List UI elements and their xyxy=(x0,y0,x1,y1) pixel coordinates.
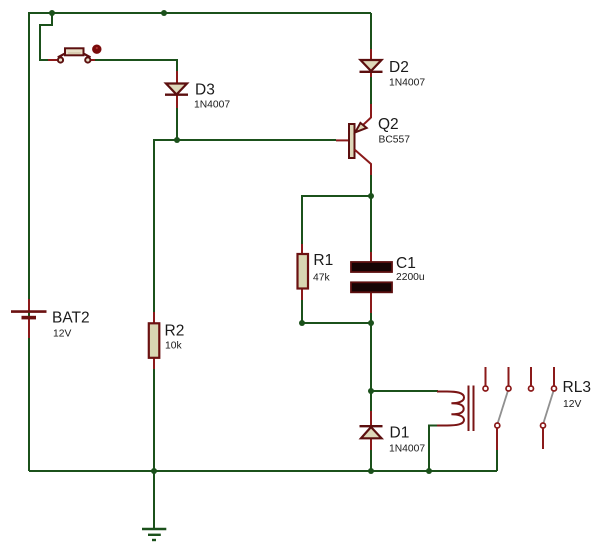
svg-text:12V: 12V xyxy=(563,399,581,410)
wire button branch xyxy=(40,13,52,60)
wire node B to R2 xyxy=(154,140,177,313)
junction node C (collector) xyxy=(368,193,374,199)
svg-text:R2: R2 xyxy=(165,323,185,340)
wire D3 to node B xyxy=(176,95,178,140)
svg-text:BC557: BC557 xyxy=(379,134,411,145)
wire button to D3 xyxy=(94,60,177,72)
resistor R1 xyxy=(298,244,309,300)
capacitor C1 xyxy=(351,252,392,313)
wire base of Q2 xyxy=(177,139,336,141)
relay RL3 core bars xyxy=(469,386,474,432)
wire R1 bottom xyxy=(301,299,303,323)
wire top rail xyxy=(29,12,371,14)
diode D1 xyxy=(360,411,383,450)
svg-text:10k: 10k xyxy=(165,341,182,352)
wire ground stem xyxy=(153,471,155,529)
wire node C to R1 top xyxy=(302,196,371,245)
svg-text:12V: 12V xyxy=(53,329,71,340)
wire D2 drop xyxy=(370,13,372,50)
svg-text:R1: R1 xyxy=(313,252,333,269)
relay switch 2 lever xyxy=(543,391,553,423)
svg-text:D3: D3 xyxy=(195,81,215,98)
transistor Q2 BC557 xyxy=(336,118,371,176)
svg-text:1N4007: 1N4007 xyxy=(389,77,425,88)
wire collector to node C xyxy=(370,174,372,196)
wire R2 to bottom rail xyxy=(153,368,155,471)
junction node B (D3/R2/base) xyxy=(174,137,180,143)
svg-text:BAT2: BAT2 xyxy=(52,310,90,327)
junction node R1 bottom xyxy=(299,320,305,326)
svg-text:C1: C1 xyxy=(396,255,416,272)
junction node ground rail xyxy=(151,468,157,474)
wire relay coil return xyxy=(429,426,438,472)
diode D2 xyxy=(360,49,383,118)
junction node top-left xyxy=(49,10,55,16)
wire node C to C1 top xyxy=(370,196,372,253)
svg-text:D1: D1 xyxy=(390,425,410,442)
relay switch pin stubs xyxy=(486,367,555,449)
junction node C1 bottom xyxy=(368,320,374,326)
svg-text:1N4007: 1N4007 xyxy=(194,100,230,111)
junction node D1 bottom rail xyxy=(368,468,374,474)
diode D3 xyxy=(165,71,188,108)
junction node coil return rail xyxy=(426,468,432,474)
wire D1 top xyxy=(370,391,372,412)
junction node relay branch xyxy=(368,388,374,394)
wire D1 bottom xyxy=(370,446,372,471)
relay switch 1 lever xyxy=(498,391,508,423)
ground xyxy=(142,529,166,540)
wire D2 cathode to Q2 emitter xyxy=(370,76,372,106)
relay RL3 coil xyxy=(437,392,464,426)
pin switch1 common xyxy=(496,429,498,451)
svg-text:1N4007: 1N4007 xyxy=(389,444,425,455)
wire relay coil top xyxy=(371,390,438,392)
svg-text:2200u: 2200u xyxy=(396,272,425,283)
relay contact circles xyxy=(483,386,557,428)
wire C1 bottom xyxy=(370,312,372,323)
svg-text:RL3: RL3 xyxy=(563,379,591,396)
battery BAT2 xyxy=(11,299,47,338)
wire C1 node to relay node xyxy=(370,323,372,391)
junction node top-mid xyxy=(161,10,167,16)
resistor R2 xyxy=(149,312,160,369)
svg-text:Q2: Q2 xyxy=(378,116,399,133)
wire bottom rail xyxy=(29,470,497,472)
wire R1 to C1 bottom link xyxy=(302,322,371,324)
wire switch1 common drop xyxy=(496,449,498,471)
svg-text:47k: 47k xyxy=(313,273,330,284)
wire left rail xyxy=(28,12,30,471)
svg-text:D2: D2 xyxy=(389,59,409,76)
push button switch xyxy=(48,45,102,63)
